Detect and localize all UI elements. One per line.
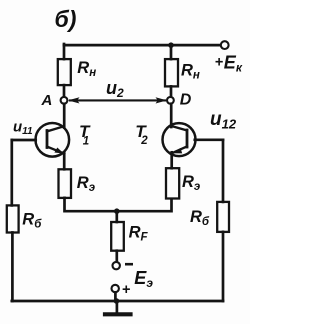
transistor T1 collector diagonal (47, 126, 64, 131)
transistor T1 emitter diagonal (47, 147, 64, 154)
svg-text:Rн: Rн (181, 62, 200, 82)
junction dot bottom rail (114, 298, 120, 304)
svg-text:Rн: Rн (77, 59, 96, 79)
resistor Rн1 body (58, 59, 71, 85)
wire Rн2 to node D (170, 86, 173, 97)
svg-text:Eэ: Eэ (134, 268, 153, 290)
wire left outer column lower (11, 233, 14, 302)
svg-text:Eк: Eк (224, 52, 243, 74)
svg-text:Rэ: Rэ (182, 173, 200, 193)
transistor T2 emitter diagonal (172, 146, 187, 153)
wire RF top stub (115, 211, 118, 222)
ground bar (105, 312, 131, 316)
wire T1 emitter to Rэ1 (63, 153, 66, 170)
wire emitter rail (65, 198, 172, 211)
terminal plus circle (112, 285, 119, 292)
wire left outer column upper (10, 140, 13, 205)
resistor Rб1 body (7, 205, 19, 232)
resistor Rэ2 body (166, 168, 179, 198)
svg-text:u2: u2 (106, 78, 124, 100)
terminal +Ek circle (221, 41, 229, 49)
wire T2 base lead (195, 138, 223, 141)
svg-text:+: + (215, 55, 224, 71)
svg-text:Rб: Rб (22, 211, 42, 231)
wire plus terminal to bottom rail (114, 292, 117, 301)
transistor T2 collector diagonal (171, 126, 187, 130)
wire T1 base lead (12, 139, 36, 142)
svg-text:A: A (41, 92, 53, 109)
svg-text:б): б) (55, 6, 77, 32)
svg-text:Rэ: Rэ (77, 174, 95, 194)
arrowhead toward node A (68, 97, 80, 103)
transistor T1 base bar (46, 131, 49, 148)
arrowhead T1 emitter (54, 148, 64, 154)
wire bottom rail (12, 300, 223, 303)
wire right outer column upper (222, 140, 225, 202)
node A circle (61, 97, 68, 104)
svg-text:u12: u12 (210, 109, 237, 131)
transistor T2 base bar (186, 130, 189, 147)
resistor Rн2 body (165, 59, 178, 86)
wire RF to minus terminal (115, 251, 118, 262)
svg-text:u11: u11 (13, 119, 33, 137)
resistor Rб2 body (217, 202, 229, 232)
wire Rн1 to node A (63, 85, 66, 97)
svg-text:Rб: Rб (190, 208, 210, 228)
label minus sign (125, 263, 133, 266)
resistor Rэ1 body (59, 169, 72, 198)
wire left column top stub (63, 44, 66, 59)
svg-text:1: 1 (83, 136, 89, 148)
wire right column top stub (170, 45, 173, 59)
ground stub (116, 301, 119, 313)
wire node D to T2 collector (170, 104, 173, 127)
svg-text:RF: RF (129, 224, 149, 244)
terminal minus circle (113, 262, 120, 269)
svg-text:2: 2 (140, 135, 148, 147)
transistor T2 circle (163, 123, 196, 156)
wire top rail (64, 44, 220, 47)
wire T2 emitter to Rэ2 (170, 152, 173, 168)
wire u2 arrow line (70, 99, 165, 101)
wire right outer column lower (222, 232, 225, 301)
node D circle (167, 97, 174, 104)
transistor T1 circle (36, 123, 70, 157)
resistor RF body (111, 222, 124, 251)
svg-text:+: + (122, 282, 131, 298)
junction dot emitter rail (114, 208, 120, 214)
arrowhead toward node D (156, 97, 168, 103)
junction dot top rail (168, 42, 174, 48)
arrowhead T2 emitter (172, 148, 182, 153)
wire node A to T1 collector (63, 104, 66, 128)
svg-text:D: D (180, 91, 192, 108)
